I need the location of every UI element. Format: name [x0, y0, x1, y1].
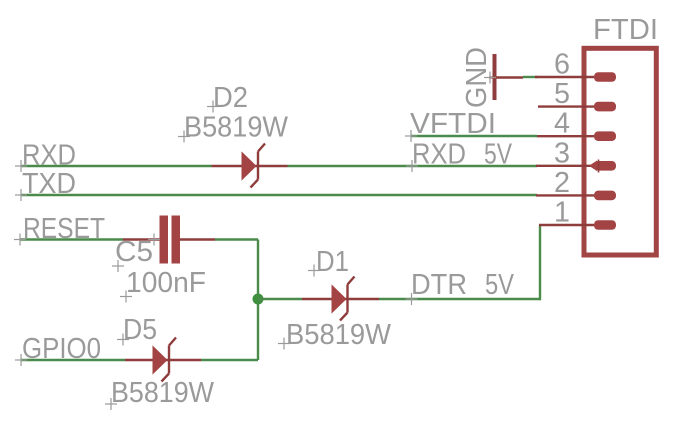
wire RESET right segment (C5 to corner) [215, 238, 258, 240]
svg-text:D5: D5 [123, 314, 157, 346]
svg-text:5: 5 [554, 78, 570, 110]
node RESET wire end cross [14, 234, 26, 246]
wire GPIO0 left segment [21, 359, 125, 361]
pin 2 line [536, 194, 594, 196]
diode D5 [125, 338, 201, 382]
wire junction to D1 [258, 298, 302, 300]
node VFTDI wire end cross [405, 130, 417, 142]
svg-text:D1: D1 [316, 246, 349, 278]
svg-text:C5: C5 [115, 236, 153, 268]
svg-text:B5819W: B5819W [184, 112, 289, 144]
svg-text:B5819W: B5819W [286, 319, 392, 351]
node DTR_5V label cross [406, 293, 418, 305]
pin 6 pad [594, 72, 616, 82]
pin 3 line [536, 165, 594, 167]
connector U1 body [584, 48, 656, 255]
wire GND to pin 6 [523, 76, 538, 78]
pin 4 line [537, 135, 594, 137]
pin 3 pad with arrow [589, 160, 616, 173]
wire RXD_5V segment (D2 cathode to pin 3) [288, 165, 538, 167]
svg-text:5V: 5V [484, 139, 513, 171]
node RXD_5V label cross [406, 160, 418, 172]
node B5819W text cross (D5) [105, 398, 117, 410]
node C5 origin cross [148, 234, 160, 246]
svg-text:1: 1 [554, 197, 570, 229]
node C5 text cross [112, 260, 124, 272]
wire vertical C5/D5 to junction [257, 240, 259, 361]
pin 5 pad [594, 102, 616, 112]
wire RESET left segment [20, 238, 123, 240]
node B5819W text cross (D1) [278, 338, 290, 350]
pin 1 pad [594, 220, 616, 230]
svg-text:3: 3 [554, 137, 570, 169]
diode D1 [302, 277, 379, 321]
pin 2 pad [594, 191, 616, 201]
svg-text:B5819W: B5819W [111, 377, 215, 409]
capacitor C5 [123, 216, 215, 264]
node D1 text cross [308, 265, 320, 277]
node TXD wire end cross [15, 189, 27, 201]
svg-text:5V: 5V [485, 269, 515, 301]
svg-text:DTR: DTR [411, 269, 467, 301]
svg-text:D2: D2 [213, 82, 248, 114]
wire D1 to DTR corner [379, 298, 540, 300]
pin 4 pad [594, 131, 616, 141]
node D5 text cross [117, 334, 129, 346]
svg-text:FTDI: FTDI [593, 14, 658, 46]
svg-text:6: 6 [554, 49, 570, 81]
node 100nF text cross [120, 291, 132, 303]
wire vertical DTR_5V to pin 1 [539, 225, 541, 300]
node GPIO0 wire end cross [15, 354, 27, 366]
svg-text:4: 4 [554, 108, 570, 140]
node B5819W text cross (D2) [178, 131, 190, 143]
wire VFTDI [411, 135, 537, 137]
node D2 text cross [207, 101, 219, 113]
pin 6 line [535, 76, 594, 78]
wire TXD [21, 194, 537, 196]
svg-text:100nF: 100nF [126, 267, 206, 299]
svg-text:RXD: RXD [412, 139, 466, 171]
wire RXD left segment [21, 165, 212, 167]
supply symbol GND [489, 54, 523, 100]
diode D2 [212, 144, 288, 188]
wire GPIO0 right segment (D5 to corner) [201, 359, 258, 361]
pin 5 line [538, 105, 594, 107]
junction node [253, 294, 264, 305]
pin 1 line [539, 224, 594, 226]
svg-text:2: 2 [554, 167, 570, 199]
node GND cross [484, 72, 496, 84]
node RXD wire end cross [15, 160, 27, 172]
